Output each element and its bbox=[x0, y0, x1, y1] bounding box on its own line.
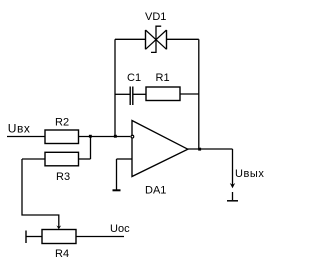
wire VD1 right bbox=[167, 38, 199, 40]
resistor R3 bbox=[45, 152, 79, 166]
op-amp DA1 bbox=[132, 121, 188, 177]
wire feedback right rail bbox=[198, 39, 200, 149]
svg-text:Uвых: Uвых bbox=[235, 168, 264, 180]
inverting input circle bbox=[131, 135, 134, 138]
wire terminal to R4 bbox=[26, 236, 42, 238]
wire input Uvx bbox=[7, 136, 45, 138]
svg-text:DA1: DA1 bbox=[145, 185, 166, 197]
common terminal at output bbox=[232, 192, 234, 200]
wire R3 left side bbox=[22, 158, 45, 160]
svg-text:R2: R2 bbox=[55, 117, 69, 129]
diode VD1 bidirectional zener bbox=[146, 26, 167, 52]
wire R3 right side bbox=[79, 158, 91, 160]
wire R2 to op-amp inverting input bbox=[79, 136, 131, 138]
wire C1 left bbox=[115, 93, 130, 95]
svg-text:R1: R1 bbox=[156, 72, 170, 84]
wire feedback left rail bbox=[114, 39, 116, 136]
resistor R2 bbox=[45, 130, 79, 144]
wire C1 to R1 bbox=[133, 93, 146, 95]
node junction B (feedback tie) bbox=[114, 135, 117, 138]
wire output bbox=[188, 148, 233, 150]
wire output down arrow bbox=[232, 149, 234, 185]
wire VD1 left bbox=[115, 38, 146, 40]
svg-text:C1: C1 bbox=[127, 72, 141, 84]
svg-text:Uвх: Uвх bbox=[8, 122, 31, 136]
wire junction A down to R3 bbox=[90, 137, 92, 160]
node output junction bbox=[198, 148, 201, 151]
svg-text:R4: R4 bbox=[55, 248, 69, 260]
terminal bar left of R4 bbox=[25, 231, 27, 244]
wire R4 to Uoc bbox=[76, 236, 124, 238]
svg-text:VD1: VD1 bbox=[145, 11, 166, 23]
node junction A (R2/R3 tie) bbox=[89, 135, 92, 138]
ground at non-inverting input bbox=[116, 159, 118, 190]
wire left column down bbox=[22, 159, 59, 227]
svg-text:R3: R3 bbox=[56, 171, 70, 183]
svg-text:Uос: Uос bbox=[110, 223, 130, 235]
resistor R4 potentiometer bbox=[42, 230, 76, 244]
wire non-inverting input bbox=[117, 158, 133, 160]
resistor R1 bbox=[146, 87, 180, 101]
wire R1 to right rail bbox=[180, 93, 199, 95]
capacitor C1 bbox=[129, 87, 131, 106]
wiper arrowhead onto R4 bbox=[56, 225, 61, 229]
